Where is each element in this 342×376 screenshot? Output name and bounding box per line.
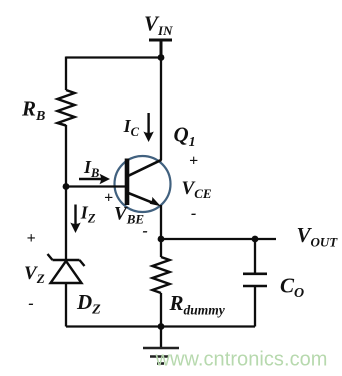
wire left rail upper <box>65 57 67 91</box>
wire left rail bottom <box>65 283 67 327</box>
wire emitter vertical <box>160 205 162 239</box>
svg-text:+: + <box>27 230 36 247</box>
wire center rail to Rdummy <box>160 239 162 257</box>
wire base <box>66 185 127 187</box>
wire output horizontal <box>161 238 276 240</box>
capacitor CO <box>243 239 267 327</box>
current arrow IB <box>79 174 110 184</box>
junction dot at output node <box>158 236 165 243</box>
node VIN terminal <box>149 40 172 58</box>
svg-text:+: + <box>189 153 198 170</box>
svg-text:+: + <box>104 190 113 207</box>
current arrow IC <box>143 113 153 142</box>
resistor RB <box>58 90 75 126</box>
junction dot at base node <box>63 183 70 190</box>
wire center rail from VIN to collector <box>160 58 162 161</box>
svg-text:-: - <box>191 205 196 222</box>
wire bottom horizontal <box>66 325 255 327</box>
svg-text:-: - <box>143 222 148 239</box>
wire left rail to zener <box>65 186 67 260</box>
wire top horizontal <box>66 56 161 58</box>
transistor Q1 <box>115 156 171 212</box>
zener diode DZ <box>48 254 85 283</box>
svg-text:-: - <box>28 295 33 312</box>
svg-text:www.cntronics.com: www.cntronics.com <box>155 349 328 371</box>
resistor Rdummy <box>153 257 170 293</box>
wire left rail middle <box>65 125 67 186</box>
current arrow IZ <box>70 205 80 234</box>
ground <box>143 327 179 364</box>
junction dot at VIN node <box>158 54 165 61</box>
junction dot at ground tee <box>158 323 165 330</box>
junction dot at capacitor tap <box>252 236 259 243</box>
wire Rdummy to bottom <box>160 293 162 327</box>
